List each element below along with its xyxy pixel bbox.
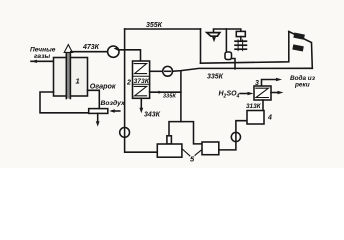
svg-text:343К: 343К <box>144 111 161 118</box>
svg-text:373К: 373К <box>134 79 151 85</box>
svg-text:Огарок: Огарок <box>90 82 116 91</box>
svg-text:2: 2 <box>126 80 131 87</box>
svg-text:реки: реки <box>294 82 310 89</box>
svg-text:5: 5 <box>190 155 195 164</box>
svg-text:Воздух: Воздух <box>101 99 127 107</box>
svg-text:3: 3 <box>255 80 259 87</box>
svg-text:4: 4 <box>236 94 240 100</box>
svg-text:335К: 335К <box>163 94 176 100</box>
svg-text:газы: газы <box>34 53 50 60</box>
svg-text:4: 4 <box>267 115 272 122</box>
svg-text:1: 1 <box>76 77 80 86</box>
svg-text:313К: 313К <box>246 103 262 110</box>
svg-text:335К: 335К <box>207 74 224 81</box>
svg-text:355К: 355К <box>146 22 163 29</box>
svg-text:473К: 473К <box>82 44 100 51</box>
